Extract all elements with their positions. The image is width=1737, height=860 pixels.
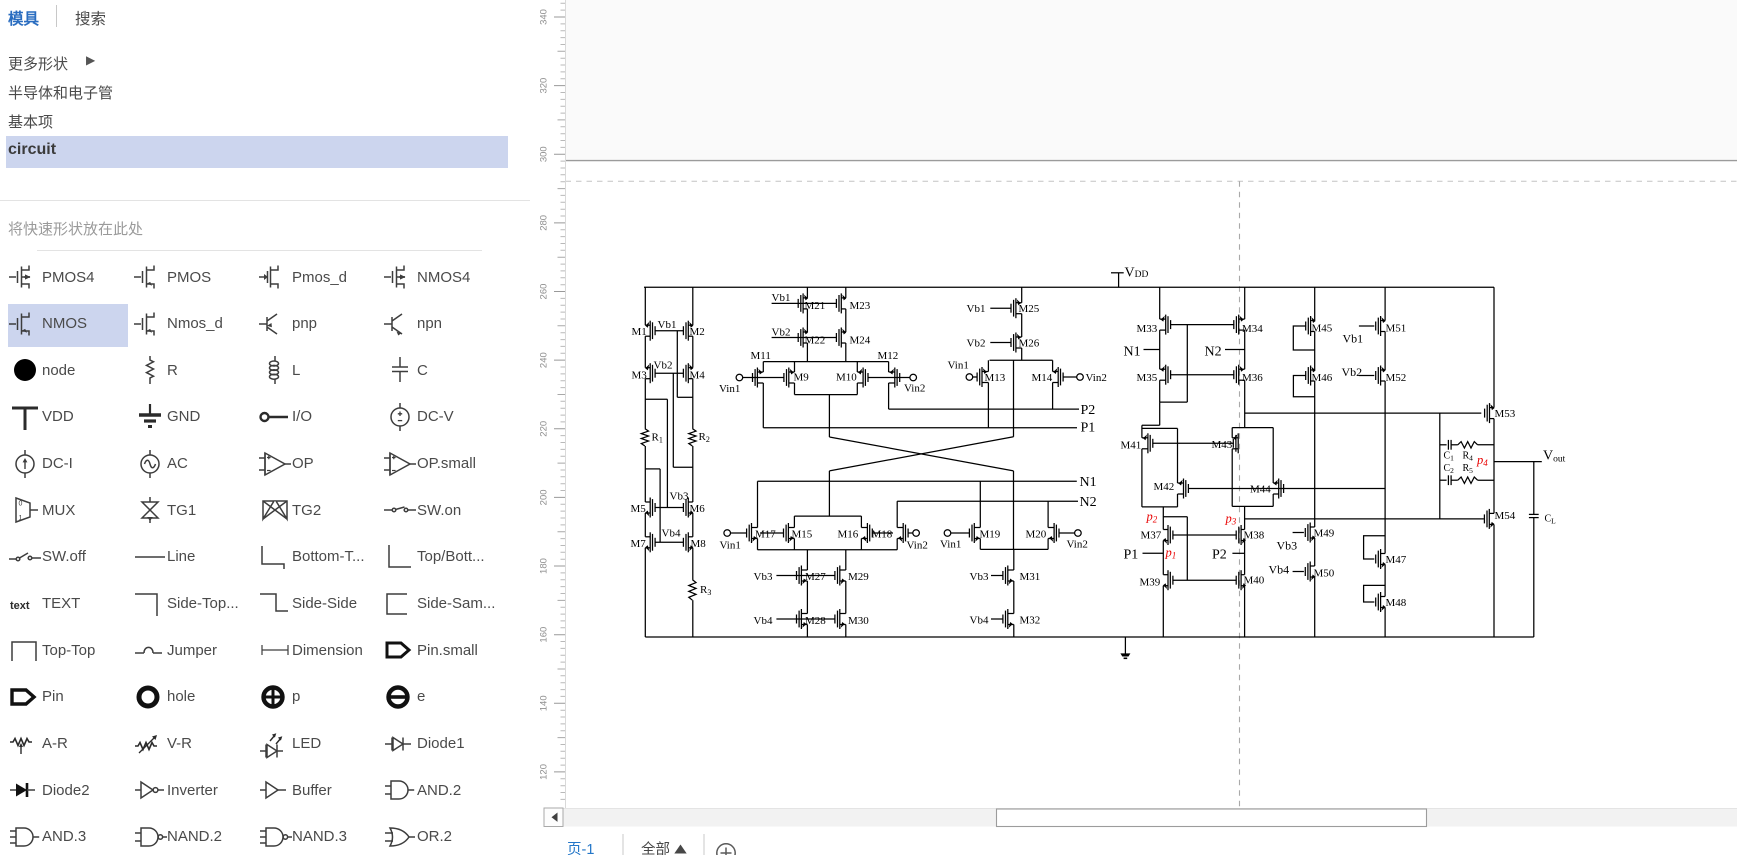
svg-text:M32: M32 (1020, 615, 1041, 627)
svg-text:M24: M24 (850, 335, 871, 347)
wire Vb1 gate wire M1-M2 (655, 330, 684, 332)
transistor M2 (687, 321, 689, 341)
wire Vb3 stub M31 (991, 575, 1003, 577)
capacitor CL (1529, 513, 1539, 515)
wire Vb1 stub M25 (990, 307, 1011, 309)
resistor R5 (1458, 477, 1478, 483)
transistor M29 (839, 566, 841, 586)
transistor M40 (1240, 570, 1242, 590)
transistor M3 (649, 363, 651, 383)
node Vin1 M19 input (944, 530, 951, 537)
svg-text:M22: M22 (805, 335, 826, 347)
svg-text:M38: M38 (1244, 530, 1265, 542)
node Vin1 M13 input (966, 374, 973, 381)
transistor M1 (649, 321, 651, 341)
page top edge line (566, 160, 1737, 162)
transistor M54 (1488, 509, 1490, 529)
wire right rail middle (692, 446, 694, 502)
svg-text:M5: M5 (631, 503, 647, 515)
transistor M43 (1237, 433, 1239, 453)
svg-text:M21: M21 (805, 300, 826, 312)
transistor M46 (1310, 366, 1312, 386)
wire M35 source node (1160, 401, 1188, 403)
wire M38-M40 node (1244, 541, 1246, 575)
wire M13 gate wire (973, 376, 978, 378)
svg-text:Vb2: Vb2 (772, 326, 791, 338)
svg-text:M29: M29 (848, 571, 869, 583)
transistor M39 (1167, 570, 1169, 590)
transistor M35 (1165, 365, 1167, 385)
svg-text:Vb4: Vb4 (1269, 563, 1290, 577)
wire node R1 bottom to M7 gate (645, 468, 660, 470)
wire M44 drain drop (1272, 428, 1274, 483)
wire gate wire M33-M34 (1170, 324, 1234, 326)
wire M43-M44 box top (1232, 427, 1273, 429)
svg-text:P1: P1 (1124, 548, 1139, 563)
transistor M22 (802, 328, 804, 348)
node Vin2 input (910, 374, 917, 381)
wire N2 stub (1225, 349, 1245, 351)
svg-text:p3: p3 (1225, 512, 1237, 527)
transistor M10 (862, 368, 864, 388)
wire M48 gate loop (1364, 585, 1386, 602)
svg-text:Vin1: Vin1 (720, 540, 741, 552)
wire Vb4 gate wire M7-M8 (655, 541, 684, 543)
wire crossing diagonal B (829, 437, 1013, 471)
wire M42 source drop (1177, 494, 1179, 507)
wire N1 stub (1144, 349, 1160, 351)
wire M19-M20 source rail (980, 548, 1048, 550)
wire M45-M49-M50 chain (1314, 287, 1316, 320)
wire gain node bus to M53 gate (1245, 412, 1482, 414)
svg-text:CL: CL (1545, 514, 1557, 526)
svg-text:Vb2: Vb2 (967, 338, 986, 350)
wire N2 bus (897, 500, 1078, 502)
svg-text:M1: M1 (632, 326, 647, 338)
transistor M21 (802, 293, 804, 313)
svg-text:Vin1: Vin1 (719, 383, 740, 395)
wire M21-M22 chain (806, 287, 808, 298)
transistor M28 (800, 609, 802, 629)
wire M46 gate loop (1293, 376, 1314, 397)
resistor R4 (1458, 442, 1478, 448)
wire M18 drain to N2 (896, 501, 898, 527)
svg-text:R2: R2 (699, 431, 710, 444)
transistor M45 (1310, 316, 1312, 336)
svg-text:180: 180 (539, 558, 550, 574)
wire Vb1 gate wire M21-M23 (772, 302, 837, 304)
svg-text:Vin2: Vin2 (907, 540, 928, 552)
transistor M51 (1380, 316, 1382, 336)
svg-text:M40: M40 (1244, 575, 1265, 587)
transistor M17 (751, 523, 753, 543)
wire Vb1 node drop (676, 331, 678, 398)
wire M15-M16 drain rail (794, 515, 861, 517)
svg-text:Vb3: Vb3 (970, 571, 989, 583)
svg-text:M44: M44 (1250, 484, 1271, 496)
wire M17 drain to N1 (757, 481, 759, 527)
wire M29 chain (845, 550, 847, 570)
transistor M24 (840, 328, 842, 348)
wire M44 source drop (1272, 494, 1274, 506)
transistor M15 (787, 523, 789, 543)
wire M47 gate loop (1364, 536, 1386, 559)
transistor M23 (840, 293, 842, 313)
svg-text:Vb3: Vb3 (754, 571, 773, 583)
svg-text:1: 1 (19, 515, 23, 522)
svg-text:260: 260 (539, 284, 550, 300)
wire gate wire M39-M40 (1173, 579, 1237, 581)
wire p3 to M54 gate bus (1245, 518, 1484, 520)
wire gate wire M41-M43 (1152, 442, 1233, 444)
svg-text:C2: C2 (1444, 463, 1455, 475)
svg-text:340: 340 (539, 9, 550, 25)
wire M13 source to P1 (987, 383, 989, 428)
ruler background (538, 0, 566, 808)
transistor M32 (1007, 609, 1009, 629)
ground (1124, 637, 1126, 654)
wire node M3 drain to M5 gate (645, 398, 667, 400)
svg-text:M54: M54 (1495, 510, 1516, 522)
wire M16 gate wire (872, 532, 893, 534)
svg-text:M52: M52 (1386, 372, 1407, 384)
svg-text:M11: M11 (751, 350, 771, 362)
wire M14 drain up (1052, 360, 1054, 371)
scrollbar left arrow button (544, 808, 563, 827)
svg-text:240: 240 (539, 352, 550, 368)
svg-text:页-1: 页-1 (567, 842, 594, 855)
svg-text:R1: R1 (652, 432, 663, 445)
svg-text:M8: M8 (691, 538, 707, 550)
svg-text:N2: N2 (1080, 495, 1097, 510)
svg-text:Vin2: Vin2 (904, 383, 925, 395)
capacitor C2 (1440, 479, 1447, 481)
svg-text:M20: M20 (1026, 529, 1047, 541)
transistor M9 (788, 368, 790, 388)
wire M18 gate wire (908, 532, 913, 534)
svg-text:M30: M30 (848, 615, 869, 627)
svg-text:M18: M18 (872, 529, 893, 541)
transistor M31 (1007, 566, 1009, 586)
transistor M49 (1309, 523, 1311, 543)
svg-text:M51: M51 (1386, 323, 1407, 335)
wire Vb4 gate wire M28-M30 (776, 618, 835, 620)
wire left rail lower (644, 446, 646, 502)
wire M40 source down (1244, 586, 1246, 637)
svg-text:M39: M39 (1140, 577, 1161, 589)
svg-text:M33: M33 (1137, 323, 1158, 335)
svg-text:Vb2: Vb2 (654, 360, 673, 372)
svg-text:M50: M50 (1314, 568, 1335, 580)
svg-text:Vin2: Vin2 (1067, 539, 1088, 551)
resistor R1 (641, 429, 648, 446)
transistor M47 (1380, 549, 1382, 569)
svg-text:Vb4: Vb4 (754, 615, 773, 627)
transistor M19 (973, 523, 975, 543)
svg-text:Vb2: Vb2 (1342, 365, 1363, 379)
transistor M6 (687, 498, 689, 518)
svg-text:Vb1: Vb1 (772, 292, 791, 304)
svg-text:300: 300 (539, 146, 550, 162)
wire M23-M24 chain (845, 287, 847, 298)
transistor M52 (1380, 366, 1382, 386)
wire M33-M35 chain (1159, 287, 1161, 319)
wire M43-M44 box bottom (1232, 505, 1273, 507)
svg-text:160: 160 (539, 627, 550, 643)
wire M15-M18 source rail (758, 549, 898, 551)
wire M43-M44 left rail (1231, 428, 1233, 438)
wire p2 node to M39 gate route (1163, 516, 1187, 518)
svg-text:M48: M48 (1386, 597, 1407, 609)
svg-text:Vin1: Vin1 (940, 539, 961, 551)
wire Vb3 gate wire M5-M6 (655, 507, 684, 509)
transistor M34 (1238, 315, 1240, 335)
wire P2 bus (889, 408, 1079, 410)
wire CL top (1533, 462, 1535, 515)
wire Vb2 stub M26 (990, 342, 1011, 344)
wire M27 chain (806, 550, 808, 570)
wire gate wire M35-M36 (1170, 374, 1234, 376)
wire M19 drain to N1 (979, 481, 981, 527)
node Vin2 M14 input (1077, 374, 1084, 381)
svg-text:p1: p1 (1165, 546, 1177, 561)
transistor M38 (1240, 525, 1242, 545)
wire right rail bottom (692, 600, 694, 637)
wire Vb3 gate wire M27-M29 (776, 575, 835, 577)
transistor M11 (756, 368, 758, 388)
transistor M36 (1238, 365, 1240, 385)
wire M35 node down jog (1159, 402, 1161, 425)
wire Vb2 node drop (672, 373, 674, 467)
svg-text:M12: M12 (878, 350, 899, 362)
svg-text:140: 140 (539, 695, 550, 711)
svg-text:M23: M23 (850, 300, 871, 312)
wire M41-M42 left rail (1141, 425, 1143, 438)
wire M13-M14 center drop (1013, 360, 1015, 437)
transistor M12 (894, 368, 896, 388)
transistor M4 (687, 363, 689, 383)
transistor M26 (1015, 333, 1017, 353)
transistor M48 (1380, 592, 1382, 612)
transistor M20 (1053, 523, 1055, 543)
svg-text:P2: P2 (1081, 403, 1096, 418)
transistor M7 (649, 532, 651, 552)
svg-text:Vb1: Vb1 (1343, 332, 1364, 346)
wire tail drop to crossing (828, 395, 830, 437)
wire M9-M12 top rail (763, 361, 888, 363)
node Vin2 M20 input (1075, 530, 1082, 537)
wire M9 drain up (794, 362, 796, 372)
wire M11 source to P1 (762, 362, 764, 372)
wire Vout tap (1494, 461, 1542, 463)
wire M45 gate loop (1293, 326, 1314, 350)
svg-text:Vb3: Vb3 (670, 491, 689, 503)
svg-text:M53: M53 (1495, 408, 1516, 420)
wire M19 gate wire (951, 532, 970, 534)
svg-text:Vin2: Vin2 (1086, 372, 1107, 384)
wire M33 gate diode drop (1186, 325, 1188, 403)
svg-text:200: 200 (539, 489, 550, 505)
svg-text:Vb4: Vb4 (662, 528, 681, 540)
wire bottom ground rail (645, 636, 1534, 638)
transistor M50 (1309, 562, 1311, 582)
node Vin2 M18 input (913, 530, 920, 537)
wire Vin1 gate wire (743, 377, 785, 379)
resistor R3 (689, 580, 696, 601)
wire M37-M39 node (1162, 541, 1164, 575)
wire Vin2 gate wire (868, 377, 910, 379)
svg-text:P2: P2 (1212, 548, 1227, 563)
transistor M5 (649, 498, 651, 518)
svg-text:VDD: VDD (1125, 266, 1149, 281)
transistor M18 (902, 523, 904, 543)
svg-text:Vb1: Vb1 (658, 319, 677, 331)
svg-text:M46: M46 (1312, 372, 1333, 384)
wire M13-M14 top rail (990, 359, 1053, 361)
wire left rail upper (644, 287, 646, 325)
svg-text:text: text (10, 600, 30, 612)
svg-text:M31: M31 (1020, 571, 1041, 583)
svg-text:120: 120 (539, 764, 550, 780)
svg-text:M45: M45 (1312, 323, 1333, 335)
wire compensation left rail (1439, 413, 1441, 519)
page margin dashed horizontal (566, 180, 1737, 182)
wire M38 drain chain (1244, 506, 1246, 529)
wire M20 drain to N2 (1047, 501, 1049, 527)
svg-text:M3: M3 (632, 370, 648, 382)
svg-text:M10: M10 (836, 372, 857, 384)
wire Vb4 stub M50 (1293, 571, 1304, 573)
wire M20 gate wire (1059, 532, 1075, 534)
sidebar header (8, 7, 39, 29)
wire Vb2 gate wire M3-M4 (655, 372, 684, 374)
svg-text:Vin1: Vin1 (948, 360, 969, 372)
wire M14 source to P2 (1052, 383, 1054, 410)
svg-text:Vb1: Vb1 (967, 303, 986, 315)
transistor M53 (1489, 403, 1491, 423)
svg-text:M9: M9 (794, 372, 810, 384)
wire M41-M42 box top (1142, 427, 1178, 429)
wire crossing A tail (1013, 471, 1015, 550)
transistor M44 (1278, 479, 1280, 499)
wire M51-M52-M47-M48 chain (1384, 287, 1386, 320)
wire M39 source down (1162, 586, 1164, 637)
svg-text:p2: p2 (1146, 510, 1158, 525)
svg-text:M13: M13 (985, 372, 1006, 384)
svg-text:N1: N1 (1124, 345, 1141, 360)
transistor M13 (981, 367, 983, 387)
transistor M27 (800, 566, 802, 586)
wire M12 source to P2 (888, 362, 890, 372)
wire right rail upper (692, 287, 694, 325)
transistor M37 (1167, 525, 1169, 545)
wire p2 node drop to M37 (1162, 507, 1164, 530)
svg-text:全部: 全部 (641, 840, 670, 855)
wire Vb1 stub M51 (1359, 325, 1374, 327)
wire P1 bus (763, 427, 1077, 429)
svg-text:M35: M35 (1137, 372, 1158, 384)
node Vin1 M17 input (724, 530, 731, 537)
VDD symbol (1118, 273, 1120, 287)
wire CL bottom (1533, 518, 1535, 637)
transistor M16 (866, 523, 868, 543)
svg-text:M49: M49 (1314, 528, 1335, 540)
svg-text:R5: R5 (1463, 463, 1474, 475)
scrollbar thumb (997, 809, 1427, 827)
svg-text:N2: N2 (1205, 345, 1222, 360)
wire gate wire M37-M38 (1173, 534, 1237, 536)
wire M13 drain up (987, 360, 989, 371)
svg-text:M47: M47 (1386, 554, 1407, 566)
ruler right border (565, 0, 567, 808)
wire M41-M42 box bottom (1142, 506, 1178, 508)
transistor M33 (1165, 315, 1167, 335)
wire gate wire M42-M44 (1188, 488, 1385, 490)
svg-text:M14: M14 (1032, 372, 1053, 384)
wire Vb4 stub M32 (991, 618, 1003, 620)
svg-text:Vb4: Vb4 (970, 615, 989, 627)
wire crossing diagonal A (829, 437, 1013, 471)
wire M25-M26 chain (1021, 287, 1023, 303)
node Vin1 input (736, 374, 743, 381)
svg-text:M43: M43 (1212, 439, 1233, 451)
svg-text:M25: M25 (1019, 303, 1040, 315)
wire Vb2 stub M52 (1359, 375, 1374, 377)
svg-text:M28: M28 (805, 615, 826, 627)
svg-text:M41: M41 (1121, 440, 1142, 452)
svg-text:M36: M36 (1242, 372, 1263, 384)
svg-text:Vb3: Vb3 (1277, 539, 1298, 553)
svg-text:220: 220 (539, 421, 550, 437)
wire Vb3 stub M49 (1293, 532, 1304, 534)
wire Vb2 gate wire M22-M24 (772, 337, 837, 339)
wire M9-M10 source rail (795, 394, 858, 396)
wire VDD top rail (644, 286, 1494, 288)
wire M34-M36 chain (1244, 287, 1246, 319)
svg-text:M6: M6 (690, 503, 706, 515)
wire M10 drain up (856, 362, 858, 372)
page boundary dashed vertical (1239, 181, 1241, 807)
transistor M14 (1057, 367, 1059, 387)
transistor M25 (1015, 298, 1017, 318)
off-page gray area (566, 0, 1737, 160)
wire M17 gate wire (731, 532, 748, 534)
svg-text:M42: M42 (1154, 481, 1175, 493)
svg-text:M37: M37 (1141, 530, 1162, 542)
svg-text:M4: M4 (690, 370, 706, 382)
svg-text:280: 280 (539, 215, 550, 231)
svg-text:C1: C1 (1444, 451, 1455, 463)
resistor R2 (689, 429, 696, 446)
svg-text:M2: M2 (690, 326, 705, 338)
wire crossing B tail (828, 471, 830, 516)
svg-text:P1: P1 (1081, 421, 1096, 436)
svg-text:M34: M34 (1242, 323, 1263, 335)
wire M42 drain drop (1177, 428, 1179, 483)
wire P1 stub (1143, 552, 1164, 554)
wire N1 bus (758, 480, 1077, 482)
svg-text:N1: N1 (1080, 475, 1097, 490)
wire P2 stub (1232, 552, 1244, 554)
transistor M41 (1147, 433, 1149, 453)
svg-text:M16: M16 (838, 529, 859, 541)
svg-text:M17: M17 (755, 529, 776, 541)
svg-text:M27: M27 (805, 571, 826, 583)
svg-text:0: 0 (19, 501, 23, 508)
transistor M42 (1183, 479, 1185, 499)
wire M15 gate wire (760, 532, 784, 534)
transistor M30 (839, 609, 841, 629)
